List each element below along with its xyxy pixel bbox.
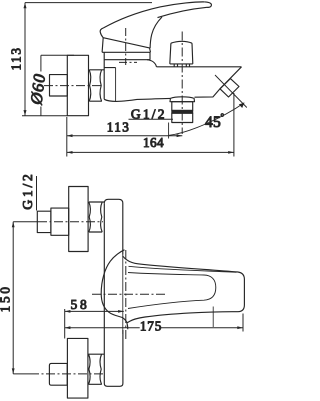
arrows 58 [65, 310, 71, 313]
arrow bottom 113 [24, 110, 27, 116]
handle right end round [205, 2, 212, 7]
arrows 175 [65, 326, 71, 329]
45 degree arc leader [169, 103, 244, 136]
extension left 58/175 [64, 309, 66, 339]
svg-text:150: 150 [0, 284, 13, 312]
extension mid (inner recess) [212, 307, 214, 328]
body seam vertical [115, 68, 117, 102]
handle lever top silhouette [104, 2, 205, 28]
svg-text:58: 58 [70, 297, 89, 312]
handle underside steep curve [150, 17, 162, 48]
svg-text:Ø60: Ø60 [26, 72, 49, 106]
svg-text:164: 164 [143, 135, 164, 150]
top inlet pipe rect big [51, 208, 69, 235]
top union nut [89, 202, 105, 232]
arrow top 113 [24, 3, 27, 9]
handle outer top edge [123, 256, 239, 272]
spout outlet cap (rotated rect) [220, 79, 239, 97]
outlet nut band 2 [172, 113, 193, 122]
svg-text:113: 113 [9, 46, 24, 70]
outlet nut band 1 [172, 102, 193, 111]
svg-text:G1/2: G1/2 [20, 171, 35, 209]
wall flange (escutcheon edge-on) [67, 55, 88, 115]
top inlet pipe rect small [37, 211, 51, 232]
thin 45 construction diagonal [215, 75, 247, 108]
extension right 175 [242, 314, 244, 332]
spout underside [155, 89, 220, 99]
dimension line D60 [40, 55, 42, 71]
dimension line 113 vertical [24, 3, 26, 116]
bottom flange [67, 338, 88, 398]
handle cap top edge (lever underside) [103, 38, 149, 48]
dimension 175 [65, 327, 140, 329]
body outline [104, 52, 156, 101]
body plan (vertical strip) left edge [104, 199, 123, 254]
bottom inlet pipe [49, 363, 67, 385]
extension 150 top [13, 221, 38, 223]
diverter knob sides [170, 43, 193, 64]
arc arrows [239, 103, 245, 108]
body front extension through handle [122, 255, 124, 335]
extension line top of 113 [25, 2, 152, 4]
handle right end [238, 272, 244, 312]
wall pipe rect [50, 75, 68, 96]
dimension 58 [65, 310, 124, 312]
collar under cap [104, 52, 150, 59]
body left edge down [104, 203, 123, 386]
outlet nut corner extension [168, 123, 170, 139]
handle cap left edge [102, 38, 103, 53]
extension line left (113/164) [66, 117, 68, 157]
handle dome arc (plan) [101, 250, 128, 329]
outlet nut top cap [170, 97, 195, 102]
arrows 150 [12, 222, 15, 228]
handle far-side top edge [158, 7, 208, 17]
dimension 113 horizontal [67, 135, 183, 137]
G1/2 leader line [36, 176, 38, 211]
cap right edge [150, 48, 151, 52]
handle outer bottom edge [127, 312, 238, 323]
svg-text:°: ° [221, 112, 225, 122]
body centerline vertical dash-dot [125, 250, 127, 340]
arrows 164 [67, 151, 73, 154]
handle lever tip [100, 28, 103, 38]
dimension 150 vertical [12, 222, 14, 374]
extension line bottom shared (113 / D60) [22, 115, 67, 117]
handle inner top line [129, 266, 237, 272]
knob feet [174, 64, 189, 67]
svg-text:175: 175 [140, 319, 162, 334]
spout 45deg cut face [220, 67, 242, 89]
diverter knob dome top [171, 41, 192, 43]
bottom union nut [89, 354, 105, 384]
cartridge centerline vertical dash-dot [125, 28, 127, 65]
union nut (hex profile) [89, 70, 104, 101]
outlet vertical centerline dash-dot [181, 32, 183, 135]
top flange [69, 187, 88, 252]
arrows 113 [67, 134, 73, 137]
cartridge center cross dash [119, 61, 137, 63]
svg-text:45: 45 [205, 114, 221, 131]
handle cap bottom [102, 51, 150, 53]
top inlet centerline dash-dot [38, 221, 103, 223]
extension line right 164 [233, 93, 235, 157]
G1/2 underline leader [129, 118, 174, 120]
bottom inlet centerline dash-dot [30, 373, 103, 375]
extension line top D60 [41, 54, 74, 56]
centerline inlet axis (horizontal dash-dot) [44, 85, 103, 87]
svg-text:113: 113 [107, 120, 131, 135]
spout arm top edge [157, 66, 242, 68]
outlet nut heavy ring [172, 110, 193, 113]
inner lever recess rounded rect [128, 273, 216, 309]
dimension 164 [67, 151, 234, 153]
handle axis centerline dash-dot [92, 293, 166, 295]
extension 150 bottom [13, 373, 30, 375]
